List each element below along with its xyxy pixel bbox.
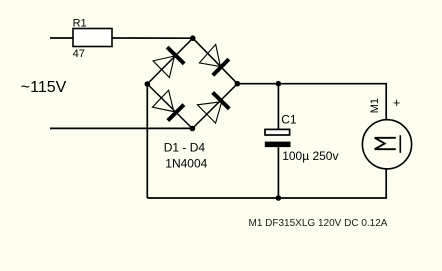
motor M underline bar (399, 135, 401, 153)
svg-text:D1 - D4: D1 - D4 (164, 141, 206, 155)
bridge edge top-left (147, 38, 193, 84)
junction dot bridge right node (235, 81, 241, 87)
wire C1 bottom tap (277, 147, 279, 198)
svg-text:1N4004: 1N4004 (165, 157, 207, 171)
wire AC bottom-left to bridge bottom node (50, 127, 192, 129)
svg-text:M1 DF315XLG 120V DC 0.12A: M1 DF315XLG 120V DC 0.12A (249, 218, 388, 229)
svg-text:~115V: ~115V (21, 79, 67, 96)
svg-text:47: 47 (73, 48, 85, 60)
svg-text:M1: M1 (369, 98, 381, 113)
diode D2 triangle (top-right edge) (199, 44, 220, 66)
diode D3 cathode bar (168, 105, 184, 121)
svg-text:R1: R1 (73, 17, 87, 29)
svg-text:100µ 250v: 100µ 250v (282, 149, 338, 163)
motor M1 circle (362, 120, 411, 169)
diode D3 triangle (bottom-left edge) (152, 90, 173, 111)
resistor R1 (73, 29, 112, 47)
diode D4 triangle (bottom-right edge) (197, 102, 221, 123)
svg-text:+: + (393, 96, 400, 110)
junction dot bridge left node (145, 81, 151, 87)
capacitor C1 top plate (265, 129, 290, 135)
junction dot bridge bottom node (190, 126, 196, 132)
diode D1 triangle (top-left edge) (153, 56, 174, 78)
bridge edge bottom-right (192, 84, 237, 129)
wire R1 to bridge top node (112, 37, 193, 39)
junction dot bridge top node (190, 35, 196, 41)
diode D4 cathode bar (213, 92, 230, 108)
diode D2 cathode bar (213, 59, 229, 75)
wire left node down (DC minus drop) (146, 84, 148, 198)
junction dot C1 bottom (276, 195, 282, 201)
wire top rail to motor (237, 84, 386, 120)
wire C1 top tap (277, 84, 279, 130)
capacitor C1 bottom plate (265, 142, 291, 148)
bridge edge bottom-left (147, 84, 192, 129)
wire AC top-left to R1 (50, 37, 73, 39)
svg-text:C1: C1 (281, 113, 297, 127)
diode D1 cathode bar (167, 47, 184, 64)
motor rotated M glyph (375, 138, 396, 149)
wire bottom rail (147, 169, 386, 198)
bridge edge top-right (193, 38, 238, 83)
junction dot C1 top (276, 81, 282, 87)
